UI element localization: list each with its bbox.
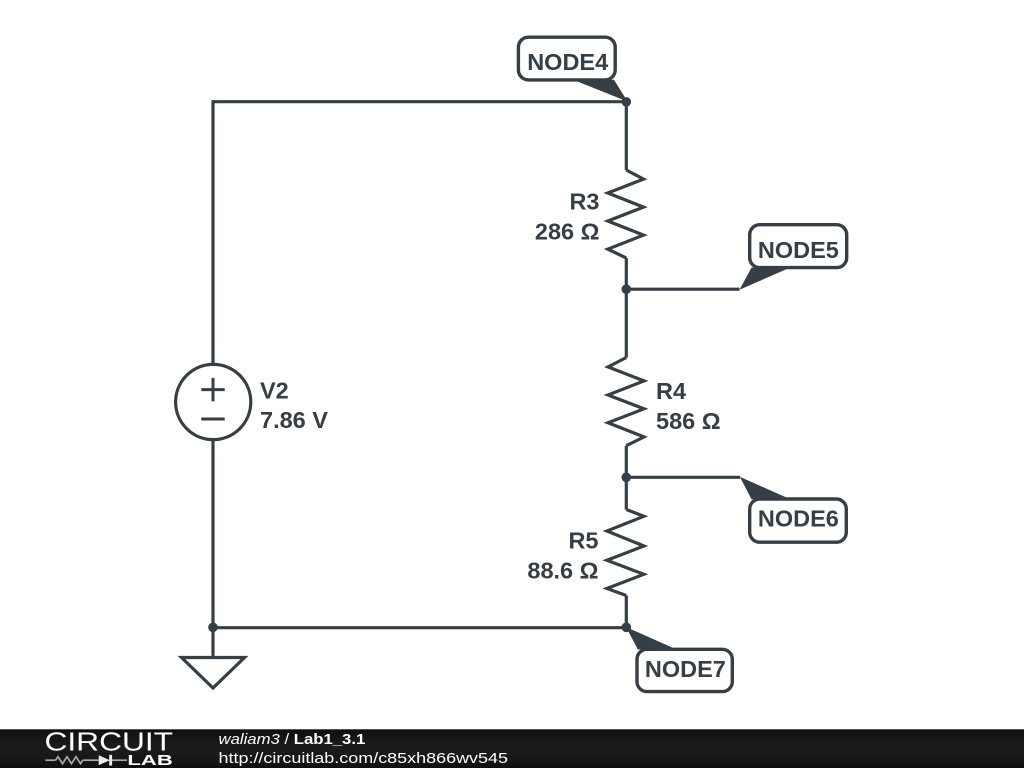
svg-text:R5: R5: [568, 528, 598, 554]
svg-text:88.6 Ω: 88.6 Ω: [527, 558, 598, 584]
svg-text:586 Ω: 586 Ω: [656, 408, 721, 434]
svg-text:R4: R4: [656, 378, 686, 404]
svg-text:waliam3 / Lab1_3.1: waliam3 / Lab1_3.1: [219, 732, 366, 748]
svg-text:R3: R3: [569, 189, 599, 215]
svg-text:NODE7: NODE7: [645, 656, 726, 682]
svg-text:7.86 V: 7.86 V: [260, 407, 328, 433]
svg-text:V2: V2: [260, 378, 289, 404]
svg-text:LAB: LAB: [127, 753, 172, 768]
svg-text:286 Ω: 286 Ω: [535, 219, 600, 245]
svg-text:NODE4: NODE4: [527, 49, 608, 75]
svg-text:http://circuitlab.com/c85xh866: http://circuitlab.com/c85xh866wv545: [219, 750, 509, 767]
svg-text:NODE5: NODE5: [758, 237, 839, 263]
svg-text:NODE6: NODE6: [758, 506, 839, 532]
